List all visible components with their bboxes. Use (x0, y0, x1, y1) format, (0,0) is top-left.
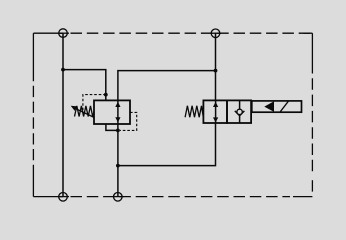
relief valve V1 envelope (94, 100, 130, 124)
relief valve V1 flow arrows (115, 102, 120, 123)
valve V2 envelope box 2 (227, 100, 251, 123)
enclosure dashed border top (33, 33, 312, 196)
junction node relief outlet (116, 129, 120, 133)
wire: valve V2 outlet down and left to main line (118, 123, 216, 166)
wire: main line below relief valve to bottom port T4 (117, 130, 119, 196)
relief valve V1 spring (75, 106, 95, 117)
pilot line from valve right side to outlet (dashed) (120, 112, 137, 130)
port T4 bottom-mid (114, 193, 123, 202)
port T2 top-right (211, 29, 220, 38)
enclosure dashed border bottom (33, 196, 63, 198)
junction node on left riser (61, 68, 65, 72)
relief valve V1 spring adjustment arrow (74, 108, 95, 118)
valve V2 box1 flow arrows (213, 102, 218, 123)
junction node pilot tap (104, 93, 108, 97)
enclosure dashed border right (304, 32, 313, 34)
junction node on right riser (214, 69, 218, 73)
port T1 top-left (59, 29, 68, 38)
valve V2 check valve in box 2 (239, 100, 241, 109)
wire: relief valve outlet jog (106, 124, 118, 130)
valve V2 envelope box 1 (203, 100, 227, 123)
wire: branch from left riser to relief valve inlet (63, 70, 106, 101)
junction node valve return (116, 164, 120, 168)
solid bus segments through port circles (58, 32, 69, 34)
solenoid S1 (252, 101, 302, 112)
wire: left riser from port T1 to port T3 (62, 33, 64, 197)
wire: right riser from port T2 down to valve V2 (215, 33, 217, 100)
valve V2 spring (185, 106, 203, 118)
enclosure dashed border left (32, 33, 34, 70)
pilot line from inlet to spring side (dashed) (83, 95, 106, 113)
port T3 bottom-left (59, 193, 68, 202)
wire: branch from right riser to relief valve flow line (118, 71, 216, 131)
